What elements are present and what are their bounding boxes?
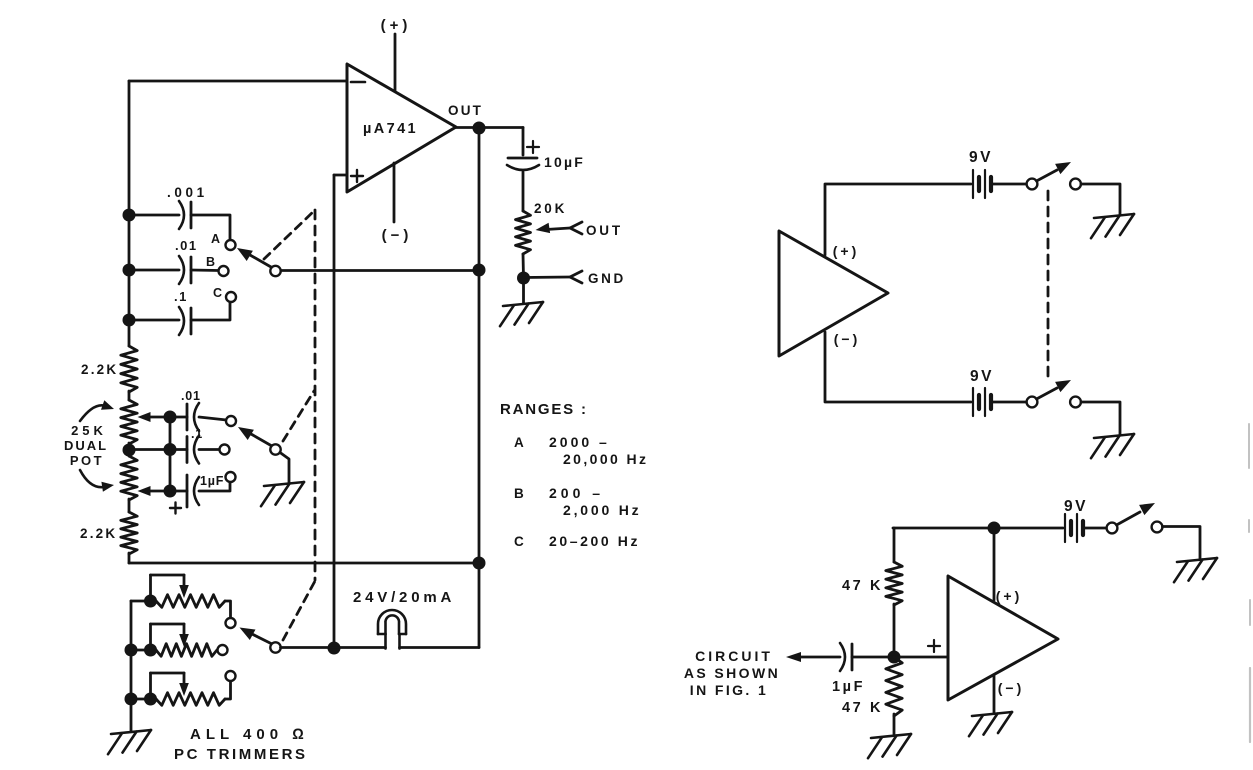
svg-text:A: A (514, 435, 525, 450)
node rail-bus junction (473, 557, 486, 570)
wire bus segment (128, 499, 131, 512)
op-amp U3 (948, 576, 1058, 700)
svg-text:PC TRIMMERS: PC TRIMMERS (174, 746, 308, 763)
node rail-switch junction (473, 264, 486, 277)
wire to cap .001 (129, 214, 179, 217)
potentiometer R2 25K dual upper half (121, 400, 137, 444)
resistor R9 47K (842, 657, 902, 716)
wire 47K to input node (893, 604, 896, 657)
svg-text:A: A (211, 232, 221, 246)
svg-text:POT: POT (70, 453, 104, 468)
curved arrow to lower wiper (80, 470, 114, 492)
svg-text:(+): (+) (833, 243, 860, 259)
wire S6 to ground (1163, 527, 1201, 560)
wire U3 V- to ground (993, 676, 996, 713)
svg-text:.01: .01 (181, 389, 201, 403)
wire bottom bus (129, 562, 480, 565)
svg-text:9V: 9V (1064, 498, 1088, 515)
wire left bus upper (128, 81, 131, 346)
wire trimmer row2 left (131, 649, 156, 652)
node bus cap .01 junction (123, 264, 136, 277)
svg-text:GND: GND (588, 271, 626, 286)
terminal trimmer row2 (218, 645, 228, 655)
svg-text:47 K: 47 K (842, 700, 883, 716)
svg-text:2,000 Hz: 2,000 Hz (563, 502, 641, 518)
wire cap to input node (852, 656, 894, 659)
svg-text:20–200 Hz: 20–200 Hz (549, 533, 640, 549)
battery B2 9V (970, 368, 994, 416)
potentiometer R3 20K (516, 201, 568, 254)
dashed gang link S4-S5 (1047, 191, 1050, 379)
switch S5 throw (1070, 397, 1081, 408)
terminal C (213, 286, 236, 302)
svg-text:B: B (514, 486, 525, 501)
svg-text:(−): (−) (382, 227, 413, 244)
battery B3 9V (1064, 498, 1088, 542)
capacitor C5 1µF (832, 643, 865, 695)
svg-text:200 –: 200 – (549, 485, 604, 501)
wire 47K to ground (893, 714, 896, 735)
node non-inverting to lamp row (328, 642, 341, 655)
pot lower wiper arrow (138, 486, 171, 496)
wire S5 to ground (1081, 402, 1120, 435)
label ALL 400 ohm PC TRIMMERS (174, 726, 309, 763)
dashed link S2 to gang bar (283, 391, 314, 441)
svg-text:.1: .1 (191, 427, 203, 441)
node OUT junction (473, 122, 486, 135)
ground below S2 (264, 482, 304, 486)
wire bus segment (128, 391, 131, 400)
wire feedback top to U1 inverting input (129, 80, 347, 83)
trimmer R6 400 ohm (151, 624, 218, 656)
wire 20K to GND node (522, 254, 525, 278)
node bank2 row2 junction (164, 443, 177, 456)
wire U1 non-inverting stub (334, 174, 347, 177)
wire scan edge artifact (1249, 424, 1250, 742)
capacitor .1 bank2 (187, 427, 203, 464)
ground below S6 (1177, 558, 1217, 562)
wire cap .001 to terminal A (191, 215, 230, 240)
20K wiper arrow (536, 223, 571, 233)
resistor R8 47K (842, 562, 902, 605)
switch S1 blade (237, 248, 271, 267)
wire cap to terminal row3 (199, 482, 230, 491)
resistor R4 2.2K (80, 512, 137, 554)
node trimmer rail row3 (125, 693, 138, 706)
pot upper wiper arrow (138, 412, 171, 422)
switch S5 pole (1027, 397, 1038, 408)
wire top rail (893, 527, 1063, 530)
wire trimmer left rail (130, 601, 133, 731)
switch S4 blade (1037, 162, 1072, 181)
node trimmer row3 bracket (144, 693, 157, 706)
ground below R9 (871, 734, 911, 738)
svg-text:(−): (−) (834, 331, 861, 347)
resistor R1 2.2K (81, 346, 137, 392)
wire GND node to ground (522, 284, 525, 303)
wire U1 output to node (456, 126, 523, 129)
wire to cap .01 bank2 (170, 416, 187, 419)
svg-text:(+): (+) (381, 17, 412, 34)
svg-text:(+): (+) (996, 588, 1023, 604)
label CIRCUIT AS SHOWN IN FIG. 1 (684, 648, 780, 698)
wire cap .01 to terminal B (191, 269, 219, 272)
node bank2 row3 junction (164, 485, 177, 498)
node U3 input junction (888, 651, 901, 664)
capacitor .01 bank2 (181, 389, 201, 431)
wire input node to U3 (894, 640, 948, 657)
switch S4 throw (1070, 179, 1081, 190)
wire battery B3 to switch (1085, 527, 1107, 530)
wire S2 pole to ground (280, 453, 289, 484)
battery B1 9V (969, 149, 993, 198)
wire battery B1 to switch (993, 183, 1027, 186)
switch S5 blade (1037, 380, 1072, 399)
node bus cap .1 junction (123, 314, 136, 327)
wire lamp to output rail (400, 646, 480, 649)
svg-text:RANGES :: RANGES : (500, 401, 588, 418)
node trimmer row1 bracket (144, 595, 157, 608)
svg-text:20,000 Hz: 20,000 Hz (563, 451, 648, 467)
wire output rail vertical (478, 128, 481, 648)
node bus pot mid junction (123, 444, 136, 457)
switch S4 pole (1027, 179, 1038, 190)
svg-text:.01: .01 (175, 238, 198, 253)
wire cap to terminal row1 (199, 417, 227, 420)
wire trimmer row1 to terminal (225, 601, 231, 618)
terminal bank2 row1 (226, 416, 236, 426)
curved arrow to upper wiper (80, 400, 114, 421)
svg-text:CIRCUIT: CIRCUIT (695, 648, 773, 664)
svg-text:IN FIG. 1: IN FIG. 1 (690, 682, 768, 698)
switch S2 pole (270, 444, 280, 454)
switch S3 blade (240, 628, 272, 644)
wire U2 V- to battery (825, 332, 971, 402)
dashed link S1 to gang bar (264, 211, 314, 259)
trimmer R5 400 ohm (151, 575, 226, 607)
svg-text:9V: 9V (969, 149, 993, 166)
switch S2 blade (238, 427, 271, 446)
trimmer R7 400 ohm (151, 673, 226, 705)
potentiometer R2 25K dual lower half (121, 456, 137, 500)
svg-text:47 K: 47 K (842, 578, 883, 594)
switch S6 pole (1107, 523, 1118, 534)
svg-text:OUT: OUT (448, 103, 483, 118)
terminal bank2 row3 (226, 472, 236, 482)
wire cap .1 to terminal C (191, 302, 230, 320)
wire S4 to ground (1081, 184, 1120, 215)
svg-text:.1: .1 (174, 289, 188, 304)
wire S3 pole to lamp (281, 646, 386, 649)
svg-text:1µF: 1µF (200, 474, 224, 488)
op-amp U2 (779, 231, 888, 356)
switch S3 pole (270, 642, 280, 652)
node trimmer rail row2 (125, 644, 138, 657)
dashed link S3 to gang bar (283, 581, 315, 640)
wire bank2 link vertical (169, 417, 172, 491)
wire bus to bottom bus corner (128, 553, 131, 563)
ground below S4 (1094, 214, 1134, 218)
wire output node down branch (522, 128, 525, 156)
svg-text:.001: .001 (167, 185, 208, 200)
terminal trimmer row3 (226, 671, 236, 681)
node rail U3 V+ junction (988, 522, 1001, 535)
switch S6 throw (1152, 522, 1163, 533)
terminal GND chevron (524, 271, 626, 286)
capacitor 1µF bank2 (170, 474, 224, 514)
svg-text:(−): (−) (998, 680, 1025, 696)
wire U2 V+ to battery (825, 184, 971, 255)
lamp 24V/20mA (353, 589, 455, 649)
svg-text:DUAL: DUAL (64, 438, 108, 453)
svg-text:20K: 20K (534, 201, 567, 216)
wire rail down to 47K (893, 528, 896, 562)
svg-text:24V/20mA: 24V/20mA (353, 589, 455, 606)
terminal trimmer row1 (226, 618, 236, 628)
wire to cap .1 (129, 319, 179, 322)
svg-text:9V: 9V (970, 368, 994, 385)
ground below GND node (503, 302, 543, 306)
label RANGES legend (500, 401, 648, 549)
capacitor .1 (174, 289, 191, 335)
ground below trimmer rail (111, 730, 151, 734)
wire cap to 20K (522, 172, 525, 211)
wire trimmer row3 left (131, 698, 156, 701)
wire to cap .01 (129, 269, 179, 272)
svg-text:1µF: 1µF (832, 679, 865, 695)
capacitor C4 10µF (507, 141, 585, 170)
svg-text:2.2K: 2.2K (81, 362, 118, 377)
wire to cap 1µF (170, 490, 187, 493)
dashed switch gang bar (314, 210, 317, 580)
wire switch pole to output rail (280, 269, 479, 272)
node bus cap .001 junction (123, 209, 136, 222)
ground below S5 (1094, 434, 1134, 438)
wire trimmer row3 to terminal (225, 681, 231, 699)
terminal A (211, 232, 236, 250)
label 25K DUAL POT (64, 423, 108, 468)
svg-text:2000 –: 2000 – (549, 434, 610, 450)
switch S1 pole (270, 266, 280, 276)
wire battery B2 to switch (993, 401, 1027, 404)
switch S6 blade (1117, 503, 1156, 525)
ground below U3 V- (972, 712, 1012, 716)
wire non-inverting vertical rail (333, 175, 336, 648)
node bank2 row1 junction (164, 411, 177, 424)
terminal OUT chevron (570, 222, 623, 238)
wire rail to U3 V+ (993, 528, 996, 600)
svg-text:C: C (514, 534, 525, 549)
svg-text:ALL 400 Ω: ALL 400 Ω (190, 726, 309, 743)
wire bus segment (128, 443, 131, 456)
arrow to circuit of fig 1 (786, 652, 840, 662)
svg-text:25K: 25K (71, 423, 107, 438)
node GND junction (517, 272, 530, 285)
terminal B (206, 255, 229, 276)
wire trimmer row1 left (131, 600, 156, 603)
capacitor .01 (175, 238, 198, 284)
svg-text:OUT: OUT (586, 223, 623, 238)
svg-text:µA741: µA741 (363, 121, 418, 137)
svg-text:AS SHOWN: AS SHOWN (684, 665, 780, 681)
capacitor .001 (167, 185, 208, 229)
svg-text:10µF: 10µF (544, 154, 585, 170)
U1 V+ supply lead (+) (381, 17, 412, 91)
wire cap to terminal row2 (199, 448, 220, 451)
svg-text:B: B (206, 255, 216, 269)
node trimmer row2 bracket (144, 644, 157, 657)
U1 V- supply lead (-) (382, 163, 413, 244)
svg-text:C: C (213, 286, 223, 300)
wire bus to cap .1 bank2 (129, 448, 187, 451)
op-amp U1 µA741 (347, 64, 456, 192)
terminal bank2 row2 (220, 445, 230, 455)
svg-text:2.2K: 2.2K (80, 526, 117, 541)
